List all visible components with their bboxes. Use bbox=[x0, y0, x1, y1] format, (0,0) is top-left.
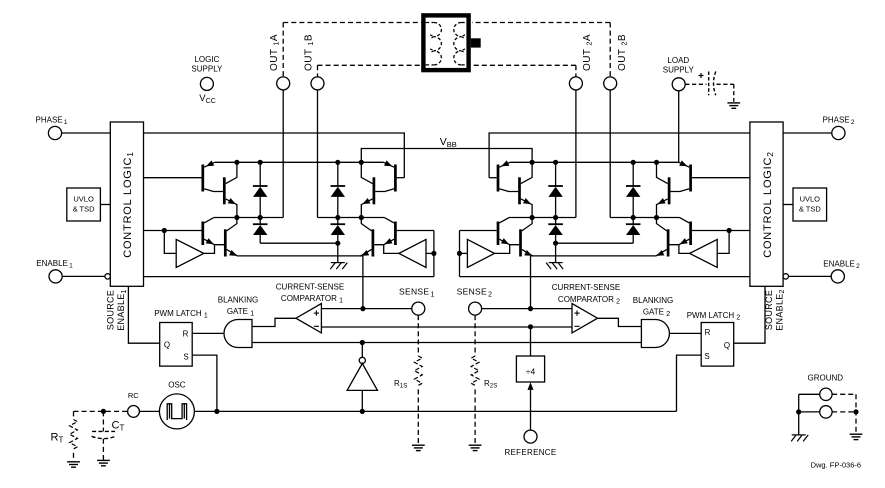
svg-text:BLANKING: BLANKING bbox=[218, 296, 258, 305]
wire: divider output to comparator minus line bbox=[530, 327, 532, 356]
transistor Q3 (sink driver, left leg) - predriver NPN bbox=[201, 222, 204, 246]
comparator - input glyph bbox=[314, 325, 319, 327]
block UVLO & TSD (box) bbox=[67, 188, 101, 221]
wire: comparator output to blanking gate input bbox=[598, 318, 642, 326]
motor winding 2 (dashed) bbox=[461, 22, 466, 24]
svg-text:CURRENT-SENSE: CURRENT-SENSE bbox=[276, 283, 344, 292]
capacitor + polarity mark bbox=[699, 75, 704, 77]
svg-text:COMPARATOR 2: COMPARATOR 2 bbox=[558, 295, 620, 305]
terminal OUT-B (pin + leads) bbox=[317, 65, 319, 77]
comparator: CURRENT-SENSE COMPARATOR (triangle) bbox=[572, 304, 598, 333]
svg-text:BLANKING: BLANKING bbox=[633, 296, 673, 305]
svg-text:SUPPLY: SUPPLY bbox=[191, 65, 223, 74]
capacitor (supply bypass, dashed external) bbox=[685, 83, 706, 85]
wire: dashed external ground return bbox=[832, 393, 856, 395]
block divide-by-4 (box) bbox=[516, 356, 544, 382]
ground (earth symbol right) bbox=[850, 434, 863, 439]
svg-text:S: S bbox=[704, 352, 709, 361]
svg-text:COMPARATOR 1: COMPARATOR 1 bbox=[281, 294, 343, 304]
wire: control bottom route to far sink-driver base bbox=[144, 276, 434, 278]
transistor Q4 (sink driver, left leg) - output NPN bbox=[667, 229, 670, 256]
wire: blanking line (gate1 to gate2) bbox=[252, 342, 641, 344]
node: rail junctions bbox=[654, 160, 659, 165]
wire: control to far source-driver base (top route) bbox=[489, 133, 750, 178]
transistor Q7 (sink driver, right leg) - predriver NPN bbox=[394, 222, 397, 246]
svg-text:OUT 2A: OUT 2A bbox=[582, 34, 594, 71]
resistor R-sense (dashed, external) bbox=[417, 315, 419, 356]
wire: output rail A bbox=[214, 217, 283, 219]
wire: output rail B bbox=[318, 217, 385, 219]
node: inverter bottom junction bbox=[360, 409, 365, 414]
terminal RC (pin) bbox=[128, 406, 140, 418]
terminal ENABLE (input pin with inverter bubble) bbox=[831, 270, 844, 283]
wire: bridge common-emitter line bbox=[531, 255, 656, 257]
terminal PHASE (input pin) bbox=[48, 126, 61, 139]
svg-text:GROUND: GROUND bbox=[808, 374, 844, 383]
svg-text:OUT 1B: OUT 1B bbox=[303, 34, 315, 71]
wire: latch R input from blanking gate bbox=[192, 332, 224, 334]
wire: dashed RC network lead bbox=[74, 410, 128, 412]
wire: oscillator line bbox=[194, 410, 676, 412]
diode D3 (top, col B) bbox=[337, 162, 339, 186]
svg-text:SOURCE: SOURCE bbox=[764, 290, 774, 330]
node: diode return junction bbox=[553, 241, 558, 246]
node: rail junctions bbox=[234, 160, 239, 165]
ground (below sense resistor) bbox=[469, 445, 482, 450]
terminal SENSE (pin) bbox=[469, 302, 482, 315]
terminal OUT-A (pin + leads) bbox=[282, 23, 284, 77]
transistor Q4 (sink driver, left leg) - output NPN bbox=[224, 229, 227, 256]
gate: BLANKING GATE (AND) bbox=[641, 320, 669, 348]
block PWM LATCH (box) bbox=[701, 323, 734, 367]
wire: REFERENCE input to divider (arrow up) bbox=[530, 390, 532, 430]
wire: output rail A bbox=[610, 217, 679, 219]
terminal OUT-A (pin + leads) bbox=[609, 23, 611, 77]
inverter (blanking one-shot, points up) bbox=[359, 357, 365, 363]
svg-text:R: R bbox=[183, 330, 189, 339]
diode D2 (bottom, col A) bbox=[259, 218, 261, 225]
wire: bridge top rail (VBB) bbox=[510, 161, 679, 163]
svg-text:OSC: OSC bbox=[168, 381, 186, 390]
comparator + input glyph bbox=[574, 312, 579, 314]
wire: dashed lead OUT-B to motor bbox=[472, 64, 576, 66]
terminal OUT-B (pin + leads) bbox=[575, 65, 577, 77]
buffer amplifier A1 (left sink predrive) bbox=[690, 239, 718, 267]
transistor Q2 (source driver, left leg) - output bbox=[223, 177, 226, 204]
transistor Q1 (source driver, left leg) - predriver PNP bbox=[689, 165, 692, 192]
resistor R-sense (dashed, external) bbox=[474, 315, 476, 356]
comparator: CURRENT-SENSE COMPARATOR (triangle) bbox=[296, 304, 322, 333]
node: ground junction right bbox=[853, 409, 858, 414]
wire: output rail B bbox=[509, 217, 576, 219]
wire: VBB feed into bridge bbox=[361, 149, 446, 163]
svg-text:& TSD: & TSD bbox=[73, 205, 96, 214]
buffer amplifier A2 (right sink predrive) bbox=[467, 239, 494, 267]
transistor Q6 (source driver, right leg) - output bbox=[518, 177, 521, 204]
oscillator OSC (circle with square wave) bbox=[159, 394, 194, 429]
transistor Q5 (source driver, right leg) - predriver PNP bbox=[497, 165, 500, 192]
ground (below RT) bbox=[67, 462, 80, 467]
svg-text:UVLO: UVLO bbox=[800, 195, 821, 204]
svg-text:SOURCE: SOURCE bbox=[106, 290, 116, 330]
node: latch1 S junction on osc line bbox=[214, 409, 219, 414]
node: inverter top junction bbox=[360, 340, 365, 345]
wire: diode return line bbox=[260, 242, 338, 244]
terminal SENSE (pin) bbox=[412, 302, 425, 315]
wire: control to far source-driver base (top route) bbox=[144, 133, 405, 178]
wire: ground pins to chassis bbox=[799, 393, 820, 395]
node: far sink base junction bbox=[457, 251, 462, 256]
motor (stepper motor, two windings) bbox=[423, 15, 468, 70]
wire: bridge top rail (VBB) bbox=[215, 161, 384, 163]
wire: latch S input from oscillator line bbox=[677, 355, 702, 411]
terminal LOAD SUPPLY (pin) bbox=[672, 78, 685, 91]
terminal PHASE (input pin) bbox=[832, 126, 845, 139]
block CONTROL LOGIC (box) bbox=[110, 122, 143, 286]
node: far sink base junction bbox=[431, 251, 436, 256]
wire: source-enable from control logic to PWM latch Q bbox=[734, 286, 765, 343]
transistor Q7 (sink driver, right leg) - predriver NPN bbox=[497, 222, 500, 246]
terminal REFERENCE (pin) bbox=[524, 430, 537, 443]
wire: bridge emitter node down to sense line bbox=[362, 256, 364, 309]
wire: dashed lead OUT-A to motor bbox=[283, 22, 421, 24]
transistor Q1 (source driver, left leg) - predriver PNP bbox=[201, 165, 204, 192]
svg-text:PWM LATCH 1: PWM LATCH 1 bbox=[154, 309, 208, 319]
svg-text:OUT 2B: OUT 2B bbox=[617, 34, 629, 71]
ground (below sense resistor) bbox=[412, 445, 425, 450]
svg-text:UVLO: UVLO bbox=[73, 195, 94, 204]
node: sense junction bbox=[528, 306, 533, 311]
diode D4 (bottom, col B) bbox=[337, 218, 339, 225]
comparator + input glyph bbox=[314, 312, 319, 314]
node: ground junction left bbox=[796, 409, 801, 414]
svg-text:S: S bbox=[183, 353, 188, 362]
svg-text:Q: Q bbox=[724, 341, 730, 350]
terminal LOGIC SUPPLY VCC (pin) bbox=[200, 77, 213, 90]
diode D3 (top, col B) bbox=[555, 162, 557, 186]
diode D1 (top, col A) bbox=[259, 162, 261, 186]
ground (below CT) bbox=[97, 460, 110, 465]
svg-text:OUT 1A: OUT 1A bbox=[269, 34, 281, 71]
diode D4 (bottom, col B) bbox=[555, 218, 557, 225]
svg-text:PWM LATCH 2: PWM LATCH 2 bbox=[687, 311, 741, 321]
svg-text:RC: RC bbox=[128, 391, 139, 400]
wire: comparator output to blanking gate input bbox=[252, 318, 296, 326]
ground (bridge, chassis symbol) bbox=[337, 243, 339, 262]
block CONTROL LOGIC (box) bbox=[750, 122, 783, 286]
diode D1 (top, col A) bbox=[632, 162, 634, 186]
wire: bridge emitter node down to sense line bbox=[530, 256, 532, 309]
node: minus line junction bbox=[528, 324, 533, 329]
wire: load supply to bridge VBB rail bbox=[678, 91, 680, 163]
svg-text:& TSD: & TSD bbox=[799, 205, 822, 214]
svg-text:CURRENT-SENSE: CURRENT-SENSE bbox=[552, 283, 620, 292]
block PWM LATCH (box) bbox=[160, 323, 193, 367]
transistor Q3 (sink driver, left leg) - predriver NPN bbox=[689, 222, 692, 246]
terminal GROUND (pin pair) bbox=[820, 388, 832, 400]
buffer amplifier A1 (left sink predrive) bbox=[176, 239, 204, 267]
svg-text:CONTROL LOGIC2: CONTROL LOGIC2 bbox=[762, 151, 775, 258]
terminal ENABLE (input pin with inverter bubble) bbox=[49, 270, 62, 283]
node: sense junction bbox=[360, 306, 365, 311]
node: CT junction bbox=[101, 409, 106, 414]
svg-text:CONTROL LOGIC1: CONTROL LOGIC1 bbox=[122, 151, 135, 258]
wire: source-enable from control logic to PWM latch Q bbox=[128, 286, 159, 343]
wire: dashed lead OUT-B to motor bbox=[318, 64, 422, 66]
block UVLO & TSD (box) bbox=[793, 188, 827, 221]
svg-text:GATE 1: GATE 1 bbox=[227, 307, 254, 317]
buffer amplifier A2 (right sink predrive) bbox=[399, 239, 426, 267]
svg-text:Dwg. FP-036-6: Dwg. FP-036-6 bbox=[811, 461, 861, 470]
wire: diode return line bbox=[556, 242, 634, 244]
transistor Q6 (source driver, right leg) - output bbox=[373, 177, 376, 204]
wire: bridge common-emitter line bbox=[238, 255, 363, 257]
svg-text:LOGIC: LOGIC bbox=[194, 55, 219, 64]
ground (load supply) bbox=[727, 103, 740, 108]
svg-text:R: R bbox=[705, 328, 711, 337]
comparator - input glyph bbox=[574, 325, 579, 327]
gate: BLANKING GATE (AND) bbox=[224, 320, 252, 348]
wire: latch R input from blanking gate bbox=[670, 332, 702, 334]
wire: comparator minus reference line bbox=[321, 326, 572, 328]
svg-text:Q: Q bbox=[164, 341, 170, 350]
svg-text:SUPPLY: SUPPLY bbox=[663, 66, 695, 75]
capacitor CT (dashed, external) bbox=[102, 411, 104, 431]
node: left sink base junction bbox=[162, 228, 167, 233]
ground (bridge, chassis symbol) bbox=[555, 243, 557, 262]
wire: sense line (+ input) to SENSE pin bbox=[482, 308, 572, 310]
svg-text:÷4: ÷4 bbox=[526, 367, 536, 377]
wire: sense line (+ input) to SENSE pin bbox=[321, 308, 411, 310]
svg-text:GATE 2: GATE 2 bbox=[643, 308, 670, 318]
transistor Q2 (source driver, left leg) - output bbox=[668, 177, 671, 204]
node: diode return junction bbox=[335, 241, 340, 246]
svg-text:LOAD: LOAD bbox=[667, 56, 689, 65]
transistor Q8 (sink driver, right leg) - output NPN bbox=[519, 229, 522, 256]
svg-text:REFERENCE: REFERENCE bbox=[504, 448, 556, 457]
wire: latch S input from oscillator line bbox=[192, 355, 217, 411]
node: left sink base junction bbox=[727, 228, 732, 233]
wire: control bottom route to far sink-driver base bbox=[460, 276, 750, 278]
transistor Q5 (source driver, right leg) - predriver PNP bbox=[394, 165, 397, 192]
ground (chassis symbol) bbox=[791, 435, 808, 442]
resistor RT (dashed, external) bbox=[73, 411, 75, 419]
motor winding 1 (dashed) bbox=[426, 22, 434, 24]
wire: VBB feed into bridge bbox=[447, 149, 532, 163]
transistor Q8 (sink driver, right leg) - output NPN bbox=[372, 229, 375, 256]
wire: dashed lead OUT-A to motor bbox=[472, 22, 610, 24]
diode D2 (bottom, col A) bbox=[632, 218, 634, 225]
